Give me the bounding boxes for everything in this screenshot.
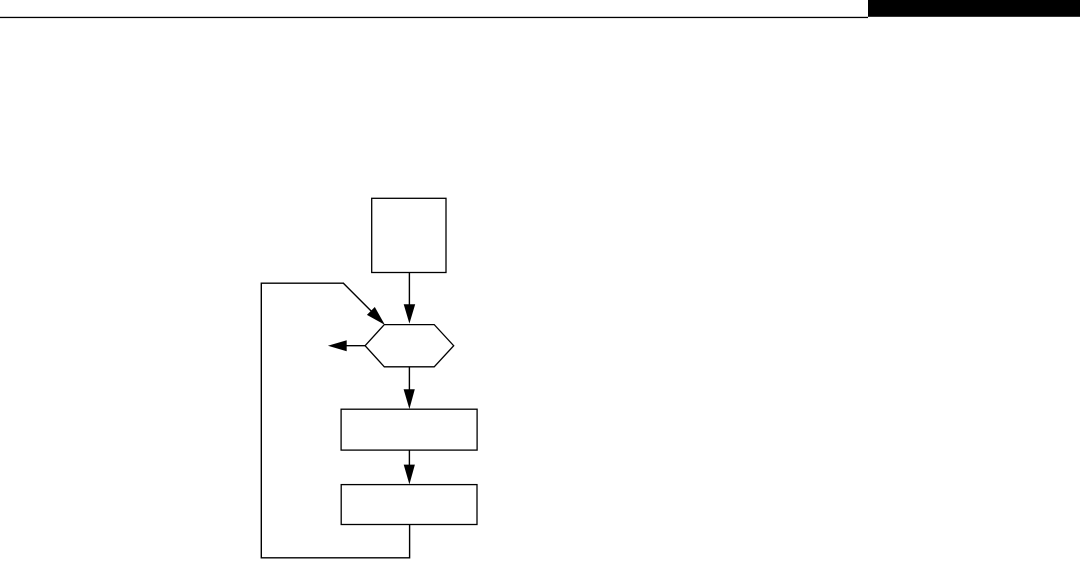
header black tab [868,0,1080,17]
header rule [0,17,868,18]
process box B2 (first rectangle) [341,409,477,450]
wire: decision left exit [346,345,365,347]
arrowhead into decision top-left corner [367,307,385,325]
decision hexagon D1 [365,325,454,367]
arrowhead into box B2 top [404,389,415,409]
wire: feedback loop (B3 bottom, down, left, up, right) [261,283,409,558]
wire: B2 bottom to box B3 [408,450,410,467]
wire: B1 bottom to decision top [408,273,410,307]
arrowhead pointing left (exit) [328,340,347,351]
process box B3 (second rectangle) [341,485,477,525]
wire: decision bottom to box B2 [408,367,410,391]
process box B1 (square, top) [372,198,446,272]
wire: loop diagonal into decision [343,283,375,315]
arrowhead into decision top [404,304,416,323]
arrowhead into box B3 top [404,465,415,485]
